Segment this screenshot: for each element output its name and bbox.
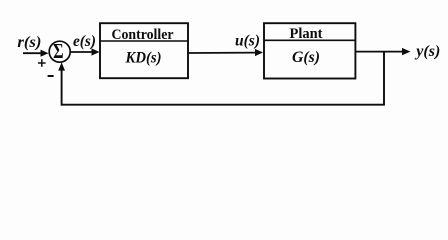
svg-text:Σ: Σ (53, 40, 63, 64)
block Plant box (264, 23, 355, 78)
minus sign (48, 75, 54, 77)
wire input r(s) with arrowhead (23, 50, 49, 57)
svg-text:u(s): u(s) (235, 32, 260, 49)
plus sign (38, 59, 46, 67)
summing junction circle (49, 41, 70, 62)
svg-text:G(s): G(s) (292, 49, 320, 66)
svg-text:Controller: Controller (112, 27, 174, 43)
wire summing junction to Controller with arrowhead (71, 48, 100, 55)
svg-text:KD(s): KD(s) (125, 50, 162, 67)
svg-text:r(s): r(s) (17, 34, 41, 51)
wire Controller to Plant with arrowhead (189, 49, 263, 56)
svg-text:y(s): y(s) (414, 43, 440, 60)
svg-text:e(s): e(s) (73, 33, 96, 50)
svg-text:Plant: Plant (290, 26, 323, 42)
block Controller box (100, 23, 188, 78)
wire feedback: node tap, down, across bottom, up into summing junction (58, 52, 384, 105)
wire Plant to output with arrowhead (356, 48, 411, 55)
